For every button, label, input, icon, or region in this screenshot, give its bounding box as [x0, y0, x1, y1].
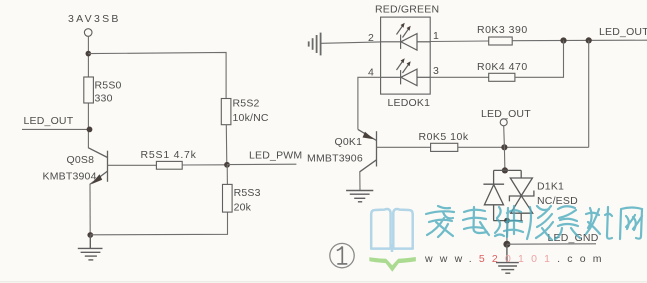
- wire vertical from LED_OUT junction: [588, 40, 590, 147]
- wire pin3 to R0K4: [430, 76, 489, 78]
- svg-text:LEDOK1: LEDOK1: [388, 97, 431, 109]
- svg-text:330: 330: [95, 93, 113, 105]
- wire: [226, 165, 228, 185]
- wire LED_GND: [507, 243, 596, 245]
- wire: [90, 212, 227, 235]
- svg-text:www.520101.com: www.520101.com: [424, 253, 609, 265]
- resistor R5S1: [156, 161, 182, 169]
- node junction LED_OUT: [87, 126, 93, 132]
- wire: [359, 172, 361, 191]
- node junction base wire: [501, 144, 507, 150]
- svg-text:20k: 20k: [234, 202, 252, 214]
- svg-text:10k/NC: 10k/NC: [233, 112, 269, 124]
- wire ground to pin2: [322, 42, 381, 43]
- resistor R0K4: [489, 73, 515, 81]
- svg-text:Q0S8: Q0S8: [67, 154, 95, 166]
- resistor R0K3: [489, 37, 513, 45]
- wire: [512, 39, 647, 42]
- figure number 1 (circled): [330, 243, 354, 267]
- wire LED_PWM: [227, 163, 296, 165]
- LED top (red): [381, 23, 431, 50]
- wire: [88, 52, 226, 98]
- wire: [182, 164, 227, 166]
- wire: [503, 147, 506, 170]
- svg-text:R5S2: R5S2: [233, 97, 260, 109]
- svg-text:LED_OUT: LED_OUT: [24, 115, 74, 127]
- wire: [22, 128, 90, 130]
- svg-text:3AV3SB: 3AV3SB: [68, 13, 121, 25]
- node junction emitter-ground: [87, 232, 93, 238]
- svg-text:NC/ESD: NC/ESD: [537, 195, 578, 207]
- wire pin4 down: [358, 77, 381, 129]
- svg-text:4: 4: [368, 67, 374, 79]
- transistor Q0K1: [358, 129, 377, 171]
- svg-text:LED_PWM: LED_PWM: [249, 150, 302, 162]
- terminal 3AV3SB: [84, 29, 92, 37]
- wire: [515, 41, 564, 78]
- node junction 3AV3SB rail: [86, 51, 92, 57]
- svg-text:MMBT3906: MMBT3906: [307, 153, 363, 165]
- resistor R5S0: [84, 77, 94, 103]
- resistor R0K5: [431, 143, 458, 151]
- wire: [506, 221, 508, 245]
- wire: [458, 146, 589, 148]
- svg-text:R5S1 4.7k: R5S1 4.7k: [141, 149, 197, 161]
- resistor R5S3: [223, 184, 233, 212]
- svg-text:LED_OUT: LED_OUT: [599, 26, 647, 38]
- node junction LED_GND: [503, 241, 510, 248]
- node junction D1K1 top: [502, 167, 508, 173]
- wire base Q0K1 to R0K5: [377, 146, 431, 148]
- wire: [503, 126, 506, 148]
- svg-text:D1K1: D1K1: [537, 181, 564, 193]
- wire: [87, 36, 89, 148]
- wire pin1 to R0K3: [430, 40, 489, 43]
- scan edge artifact bottom: [0, 281, 647, 282]
- ground: [78, 235, 103, 260]
- svg-text:R0K5 10k: R0K5 10k: [419, 131, 469, 143]
- TVS diode D1K1: [483, 170, 534, 220]
- node junction R0K4 top: [560, 37, 566, 43]
- svg-text:R5S0: R5S0: [95, 80, 122, 92]
- svg-text:Q0K1: Q0K1: [335, 136, 363, 148]
- svg-text:RED/GREEN: RED/GREEN: [375, 3, 439, 15]
- resistor R5S2: [221, 99, 231, 125]
- wire base Q0S8 to R5S1: [108, 164, 157, 166]
- node junction LED_PWM: [224, 162, 230, 168]
- svg-text:LED_OUT: LED_OUT: [481, 108, 531, 120]
- watermark logo swoosh: [369, 257, 416, 272]
- wire: [89, 184, 91, 235]
- LED bottom (green): [381, 58, 431, 85]
- ground (Q0K1): [346, 191, 373, 202]
- watermark text jiadian weixiu ziliao wang: [426, 206, 642, 240]
- transistor Q0S8: [88, 148, 107, 185]
- svg-text:R5S3: R5S3: [234, 187, 261, 199]
- terminal LED_OUT mid: [500, 119, 507, 126]
- watermark logo book: [371, 209, 413, 252]
- ground (right circuit, LED common): [309, 33, 321, 56]
- LED package box LEDOK1: [381, 17, 431, 94]
- svg-text:3: 3: [433, 65, 439, 77]
- svg-text:R0K3 390: R0K3 390: [477, 24, 528, 36]
- node junction LED_OUT drop: [586, 37, 592, 43]
- node junction D1K1 bottom: [504, 218, 510, 224]
- svg-text:KMBT3904: KMBT3904: [43, 170, 97, 182]
- ground (LED_GND): [496, 244, 519, 273]
- svg-text:1: 1: [433, 30, 439, 42]
- wire: [225, 125, 228, 165]
- svg-text:2: 2: [368, 32, 374, 44]
- svg-text:R0K4 470: R0K4 470: [477, 61, 528, 73]
